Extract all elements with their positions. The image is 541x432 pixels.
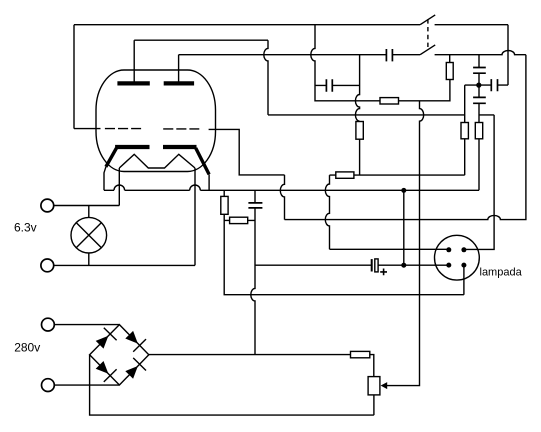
svg-text:6.3v: 6.3v [14,221,37,235]
svg-text:280v: 280v [14,341,40,355]
svg-text:lampada: lampada [480,267,523,279]
